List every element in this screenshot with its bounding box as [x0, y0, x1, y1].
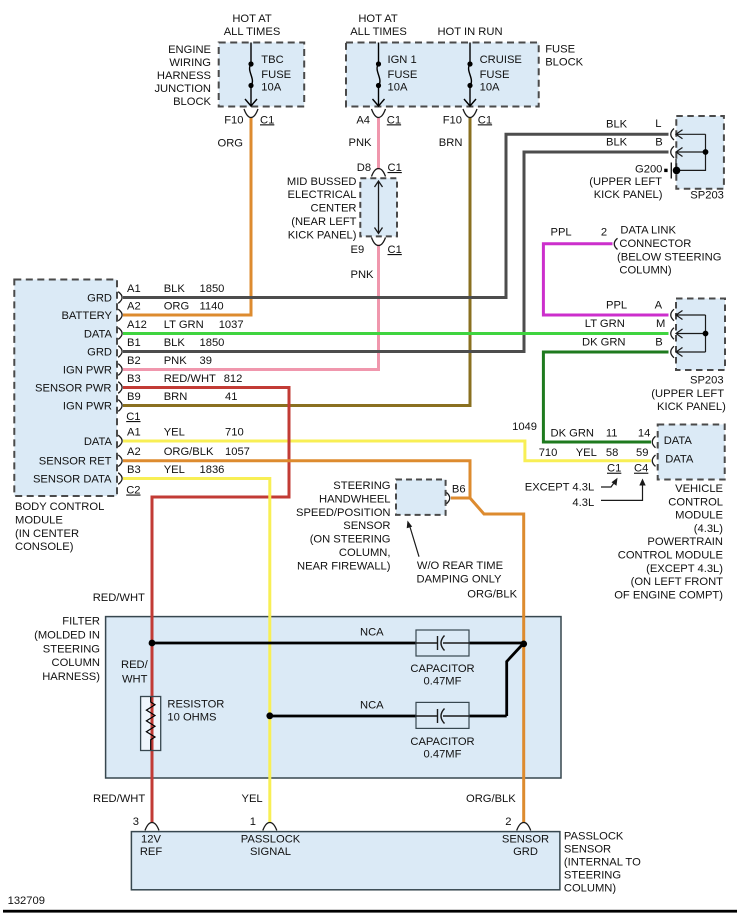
- sensor B6 connector arc: [447, 493, 450, 504]
- svg-text:(UPPER LEFT: (UPPER LEFT: [589, 176, 662, 188]
- svg-text:KICK PANEL): KICK PANEL): [657, 401, 726, 413]
- svg-text:L: L: [655, 118, 661, 130]
- mid bussed double arrow: [375, 181, 383, 234]
- svg-text:A4: A4: [356, 114, 370, 126]
- svg-text:(EXCEPT 4.3L): (EXCEPT 4.3L): [646, 563, 723, 575]
- svg-text:FUSE: FUSE: [480, 69, 510, 81]
- svg-text:DATA: DATA: [664, 435, 693, 447]
- svg-text:B: B: [655, 136, 662, 148]
- svg-text:1140: 1140: [200, 301, 224, 313]
- svg-text:SP203: SP203: [690, 375, 724, 387]
- svg-text:BLOCK: BLOCK: [545, 57, 583, 69]
- svg-text:RESISTOR: RESISTOR: [167, 699, 224, 711]
- svg-text:GRD: GRD: [87, 347, 112, 359]
- svg-text:NCA: NCA: [360, 699, 384, 711]
- svg-text:LT GRN: LT GRN: [585, 318, 625, 330]
- svg-text:41: 41: [225, 391, 237, 403]
- svg-text:C2: C2: [126, 485, 140, 497]
- svg-text:10 OHMS: 10 OHMS: [167, 712, 216, 724]
- svg-text:(MOLDED IN: (MOLDED IN: [34, 629, 100, 641]
- wire capacitor C2 to junction diagonal: [507, 646, 522, 717]
- svg-text:M: M: [656, 318, 665, 330]
- wire YEL 710 BCM A1 to VCM DATA: [123, 441, 651, 461]
- svg-text:DK GRN: DK GRN: [582, 336, 626, 348]
- fuse CRUISE symbol: [464, 43, 476, 107]
- svg-text:B9: B9: [127, 391, 141, 403]
- svg-text:COLUMN): COLUMN): [619, 265, 671, 277]
- passlock connector arc pin 2: [517, 823, 531, 831]
- VCM connector DATA 2 arc: [652, 455, 655, 466]
- svg-text:ORG/BLK: ORG/BLK: [164, 446, 214, 458]
- svg-text:(4.3L): (4.3L): [694, 523, 723, 535]
- svg-text:B1: B1: [127, 337, 141, 349]
- svg-text:E9: E9: [351, 244, 365, 256]
- svg-text:GRD: GRD: [87, 293, 112, 305]
- svg-text:ORG/BLK: ORG/BLK: [467, 589, 517, 601]
- svg-text:FUSE: FUSE: [545, 44, 575, 56]
- wire BRN fuse F10 to BCM B9: [123, 118, 470, 406]
- svg-text:SENSOR: SENSOR: [502, 834, 549, 846]
- svg-text:A12: A12: [127, 319, 147, 331]
- svg-text:C4: C4: [634, 463, 648, 475]
- steering handwheel speed/position sensor box: [396, 480, 446, 515]
- w/o rear time damping arrow: [410, 527, 419, 557]
- svg-text:NCA: NCA: [360, 627, 384, 639]
- junction dot red/capacitor: [149, 640, 156, 647]
- svg-text:PASSLOCK: PASSLOCK: [241, 834, 301, 846]
- svg-text:HOT AT: HOT AT: [232, 13, 272, 25]
- wire PNK fuse A4 to D8: [377, 118, 380, 170]
- svg-text:C1: C1: [126, 411, 140, 423]
- svg-text:SENSOR DATA: SENSOR DATA: [33, 474, 112, 486]
- svg-text:BLK: BLK: [606, 136, 628, 148]
- fuse block (fuse box 2): [346, 43, 539, 107]
- svg-text:59: 59: [636, 447, 648, 459]
- SP203 upper connector B: [671, 146, 674, 158]
- svg-text:1037: 1037: [219, 319, 244, 331]
- svg-text:PNK: PNK: [164, 355, 188, 367]
- svg-text:GRD: GRD: [513, 846, 538, 858]
- svg-text:D8: D8: [357, 162, 371, 174]
- svg-text:(ON LEFT FRONT: (ON LEFT FRONT: [631, 576, 724, 588]
- svg-text:(INTERNAL TO: (INTERNAL TO: [564, 857, 641, 869]
- svg-text:710: 710: [225, 427, 244, 439]
- svg-text:0.47MF: 0.47MF: [424, 748, 462, 760]
- capacitor C2 wire (NCA): [270, 715, 507, 718]
- svg-text:DATA: DATA: [665, 453, 694, 465]
- filter box: [106, 617, 561, 778]
- svg-text:SENSOR: SENSOR: [564, 844, 611, 856]
- svg-text:STEERING: STEERING: [564, 870, 621, 882]
- svg-text:ORG: ORG: [164, 301, 189, 313]
- svg-text:HARNESS: HARNESS: [157, 70, 211, 82]
- svg-text:BLOCK: BLOCK: [173, 96, 211, 108]
- svg-text:DAMPING ONLY: DAMPING ONLY: [417, 574, 502, 586]
- svg-text:ORG: ORG: [218, 138, 243, 150]
- svg-text:C1: C1: [478, 114, 492, 126]
- svg-text:IGN PWR: IGN PWR: [63, 401, 112, 413]
- svg-text:PPL: PPL: [551, 227, 572, 239]
- svg-text:COLUMN: COLUMN: [52, 657, 100, 669]
- svg-text:1850: 1850: [200, 283, 225, 295]
- BCM connector arcs: [118, 292, 122, 485]
- junction dot org/capacitor: [520, 641, 527, 648]
- vehicle control module box: [658, 425, 725, 480]
- svg-text:DATA: DATA: [84, 436, 113, 448]
- wire BLK 1850 BCM B1 to SP203 B: [123, 152, 669, 352]
- wire PNK E9 to BCM B2: [123, 245, 379, 370]
- resistor R fill: [141, 697, 161, 751]
- passlock connector arc pin 3: [145, 823, 159, 831]
- svg-text:TBC: TBC: [261, 54, 283, 66]
- svg-text:ELECTRICAL: ELECTRICAL: [287, 189, 356, 201]
- svg-text:SENSOR PWR: SENSOR PWR: [35, 383, 111, 395]
- svg-text:BODY CONTROL: BODY CONTROL: [15, 501, 104, 513]
- svg-text:G200: G200: [635, 164, 662, 176]
- wire RED/WHT 812 BCM B3 to filter and passlock: [123, 388, 289, 824]
- svg-text:MODULE: MODULE: [675, 510, 723, 522]
- svg-text:SENSOR: SENSOR: [343, 520, 390, 532]
- svg-text:DK GRN: DK GRN: [551, 428, 595, 440]
- wire BLK 1850 BCM A1 to SP203 L: [123, 134, 669, 297]
- splice SP203 box (lower): [676, 299, 725, 371]
- SP203 upper joining lines: [676, 134, 706, 170]
- bottom rule: [3, 910, 737, 913]
- svg-text:BLK: BLK: [606, 118, 628, 130]
- svg-text:PNK: PNK: [349, 137, 373, 149]
- capacitor C1 box: [416, 630, 469, 656]
- connector C1 under fuse 1: [244, 109, 258, 118]
- svg-text:A2: A2: [127, 446, 141, 458]
- svg-text:ALL TIMES: ALL TIMES: [350, 26, 407, 38]
- svg-text:OF ENGINE COMPT): OF ENGINE COMPT): [614, 589, 723, 601]
- svg-text:PNK: PNK: [351, 269, 375, 281]
- svg-text:RED/WHT: RED/WHT: [164, 373, 216, 385]
- svg-text:A: A: [655, 299, 663, 311]
- svg-text:DATA: DATA: [84, 329, 113, 341]
- svg-text:1836: 1836: [200, 464, 225, 476]
- wire PPL data link connector to SP203 A: [543, 244, 668, 315]
- body control module box: [14, 280, 117, 497]
- SP203 upper junction dot: [703, 149, 709, 155]
- svg-text:B: B: [655, 336, 662, 348]
- capacitor C1 wire (NCA): [152, 642, 524, 645]
- svg-text:710: 710: [539, 447, 558, 459]
- svg-text:(NEAR LEFT: (NEAR LEFT: [291, 216, 356, 228]
- svg-text:12V: 12V: [141, 834, 161, 846]
- svg-text:BRN: BRN: [164, 391, 188, 403]
- svg-text:1: 1: [250, 816, 256, 828]
- svg-text:SIGNAL: SIGNAL: [250, 846, 291, 858]
- 4.3L arrow to C4: [601, 484, 643, 500]
- svg-text:2: 2: [505, 816, 511, 828]
- svg-text:CAPACITOR: CAPACITOR: [410, 663, 474, 675]
- svg-text:CENTER: CENTER: [311, 203, 357, 215]
- svg-text:B6: B6: [452, 484, 466, 496]
- svg-text:(UPPER LEFT: (UPPER LEFT: [651, 388, 724, 400]
- svg-text:C1: C1: [260, 114, 274, 126]
- svg-text:3: 3: [133, 816, 139, 828]
- svg-text:COLUMN): COLUMN): [564, 883, 616, 895]
- connector C1 under fuse 2: [372, 109, 386, 118]
- wire DK GRN SP203 B to VCM DATA: [543, 352, 668, 442]
- svg-text:C1: C1: [387, 114, 401, 126]
- wire ORG/BLK 1057 BCM A2 to sensor B6: [123, 461, 470, 498]
- svg-text:BATTERY: BATTERY: [61, 310, 112, 322]
- svg-text:2: 2: [601, 227, 607, 239]
- svg-text:HANDWHEEL: HANDWHEEL: [319, 493, 390, 505]
- wire ORG/BLK branch B6 to filter and passlock pin 2: [470, 498, 524, 823]
- SP203 lower connector B: [671, 346, 674, 358]
- svg-text:0.47MF: 0.47MF: [424, 675, 462, 687]
- svg-text:RED/WHT: RED/WHT: [93, 793, 145, 805]
- svg-text:HOT IN RUN: HOT IN RUN: [437, 26, 502, 38]
- capacitor C1 symbol: [416, 636, 469, 651]
- svg-text:F10: F10: [224, 114, 243, 126]
- connector E9 C1 arc: [372, 238, 386, 246]
- svg-text:JUNCTION: JUNCTION: [154, 83, 211, 95]
- svg-text:WHT: WHT: [122, 673, 148, 685]
- svg-text:B2: B2: [127, 355, 141, 367]
- svg-text:A1: A1: [127, 283, 141, 295]
- svg-text:B3: B3: [127, 464, 141, 476]
- svg-text:CONTROL: CONTROL: [668, 496, 723, 508]
- SP203 lower joining line: [705, 315, 707, 352]
- engine wiring harness junction block (fuse box 1): [219, 43, 305, 107]
- svg-text:FUSE: FUSE: [261, 69, 291, 81]
- capacitor C2 box: [416, 702, 469, 728]
- svg-text:YEL: YEL: [576, 447, 597, 459]
- svg-text:BLK: BLK: [164, 337, 186, 349]
- svg-text:HARNESS): HARNESS): [42, 671, 100, 683]
- svg-text:YEL: YEL: [164, 427, 185, 439]
- svg-text:IGN 1: IGN 1: [388, 54, 417, 66]
- VCM connector DATA 1 arc: [652, 436, 655, 447]
- except 4.3L arrow to C1: [601, 482, 615, 488]
- svg-text:CAPACITOR: CAPACITOR: [410, 736, 474, 748]
- svg-text:CRUISE: CRUISE: [480, 54, 522, 66]
- svg-text:ENGINE: ENGINE: [168, 44, 211, 56]
- svg-text:ALL TIMES: ALL TIMES: [224, 26, 281, 38]
- svg-text:812: 812: [224, 373, 243, 385]
- passlock connector arc pin 1: [263, 823, 277, 831]
- svg-text:RED/WHT: RED/WHT: [93, 592, 145, 604]
- fuse TBC symbol: [245, 43, 257, 107]
- svg-text:IGN PWR: IGN PWR: [63, 365, 112, 377]
- svg-text:4.3L: 4.3L: [572, 497, 594, 509]
- svg-text:10A: 10A: [480, 82, 500, 94]
- wire LT GRN 1037 BCM A12 to SP203 M: [123, 332, 669, 335]
- SP203 lower connector A: [671, 309, 674, 321]
- svg-text:MID BUSSED: MID BUSSED: [287, 176, 357, 188]
- svg-text:10A: 10A: [261, 82, 281, 94]
- junction dot yel/capacitor: [266, 712, 273, 719]
- svg-text:1057: 1057: [225, 446, 250, 458]
- svg-text:B3: B3: [127, 373, 141, 385]
- svg-text:STEERING: STEERING: [333, 480, 390, 492]
- svg-text:C1: C1: [607, 463, 621, 475]
- svg-text:EXCEPT 4.3L: EXCEPT 4.3L: [525, 482, 594, 494]
- svg-text:KICK PANEL): KICK PANEL): [288, 229, 357, 241]
- fuse IGN 1 symbol: [373, 43, 385, 107]
- wire ORG fuse F10 to BCM A2: [123, 118, 251, 316]
- svg-text:PPL: PPL: [606, 299, 627, 311]
- svg-text:SP203: SP203: [690, 190, 724, 202]
- svg-text:BLK: BLK: [164, 283, 186, 295]
- svg-text:C1: C1: [388, 244, 402, 256]
- svg-text:SENSOR RET: SENSOR RET: [39, 456, 112, 468]
- svg-text:10A: 10A: [388, 82, 408, 94]
- resistor R 10 ohms box: [141, 697, 161, 751]
- svg-text:COLUMN,: COLUMN,: [339, 547, 391, 559]
- svg-text:SPEED/POSITION: SPEED/POSITION: [296, 507, 391, 519]
- svg-text:FILTER: FILTER: [62, 616, 100, 628]
- svg-text:W/O REAR TIME: W/O REAR TIME: [417, 560, 503, 572]
- svg-text:ORG/BLK: ORG/BLK: [466, 793, 516, 805]
- svg-text:CONNECTOR: CONNECTOR: [619, 238, 691, 250]
- svg-text:(IN CENTER: (IN CENTER: [15, 528, 79, 540]
- svg-text:58: 58: [606, 447, 618, 459]
- svg-text:A2: A2: [127, 301, 141, 313]
- mid bussed electrical center box: [360, 178, 397, 236]
- svg-text:MODULE: MODULE: [15, 514, 63, 526]
- svg-text:FUSE: FUSE: [388, 69, 418, 81]
- svg-text:C1: C1: [388, 162, 402, 174]
- svg-text:CONSOLE): CONSOLE): [15, 541, 74, 553]
- svg-text:39: 39: [200, 355, 212, 367]
- svg-text:WIRING: WIRING: [169, 57, 211, 69]
- svg-text:CONTROL MODULE: CONTROL MODULE: [618, 550, 723, 562]
- svg-text:KICK PANEL): KICK PANEL): [594, 189, 663, 201]
- connector D8 C1 arc: [372, 169, 386, 177]
- svg-text:LT GRN: LT GRN: [164, 319, 204, 331]
- SP203 lower junction dot: [703, 331, 709, 337]
- svg-text:STEERING: STEERING: [43, 643, 100, 655]
- svg-text:A1: A1: [127, 427, 141, 439]
- ground G200 symbol: [673, 167, 681, 175]
- svg-text:NEAR FIREWALL): NEAR FIREWALL): [297, 560, 391, 572]
- svg-text:1850: 1850: [200, 337, 225, 349]
- resistor zigzag: [146, 697, 155, 750]
- svg-text:1049: 1049: [512, 421, 537, 433]
- passlock sensor box: [131, 832, 560, 890]
- connector C1 under fuse 3: [463, 109, 477, 118]
- svg-text:11: 11: [606, 428, 618, 440]
- SP203 lower connector M: [671, 328, 674, 340]
- svg-text:14: 14: [638, 428, 650, 440]
- svg-text:RED/: RED/: [121, 659, 149, 671]
- svg-text:HOT AT: HOT AT: [358, 13, 398, 25]
- svg-text:DATA LINK: DATA LINK: [620, 225, 676, 237]
- svg-text:(BELOW STEERING: (BELOW STEERING: [617, 251, 721, 263]
- svg-text:POWERTRAIN: POWERTRAIN: [647, 536, 723, 548]
- wire YEL 1836 BCM B3 to filter and passlock pin 1: [123, 479, 270, 824]
- svg-text:BRN: BRN: [439, 137, 463, 149]
- svg-text:PASSLOCK: PASSLOCK: [564, 831, 624, 843]
- svg-text:132709: 132709: [8, 895, 45, 907]
- svg-text:VEHICLE: VEHICLE: [675, 483, 723, 495]
- svg-text:REF: REF: [140, 846, 163, 858]
- data link connector arc: [614, 238, 617, 249]
- splice SP203 box (upper, G200): [676, 116, 724, 189]
- svg-text:YEL: YEL: [242, 793, 263, 805]
- capacitor C2 symbol: [416, 709, 469, 724]
- svg-text:F10: F10: [443, 114, 462, 126]
- svg-text:(ON STEERING: (ON STEERING: [310, 534, 391, 546]
- svg-text:YEL: YEL: [164, 464, 185, 476]
- SP203 upper connector L: [671, 129, 674, 141]
